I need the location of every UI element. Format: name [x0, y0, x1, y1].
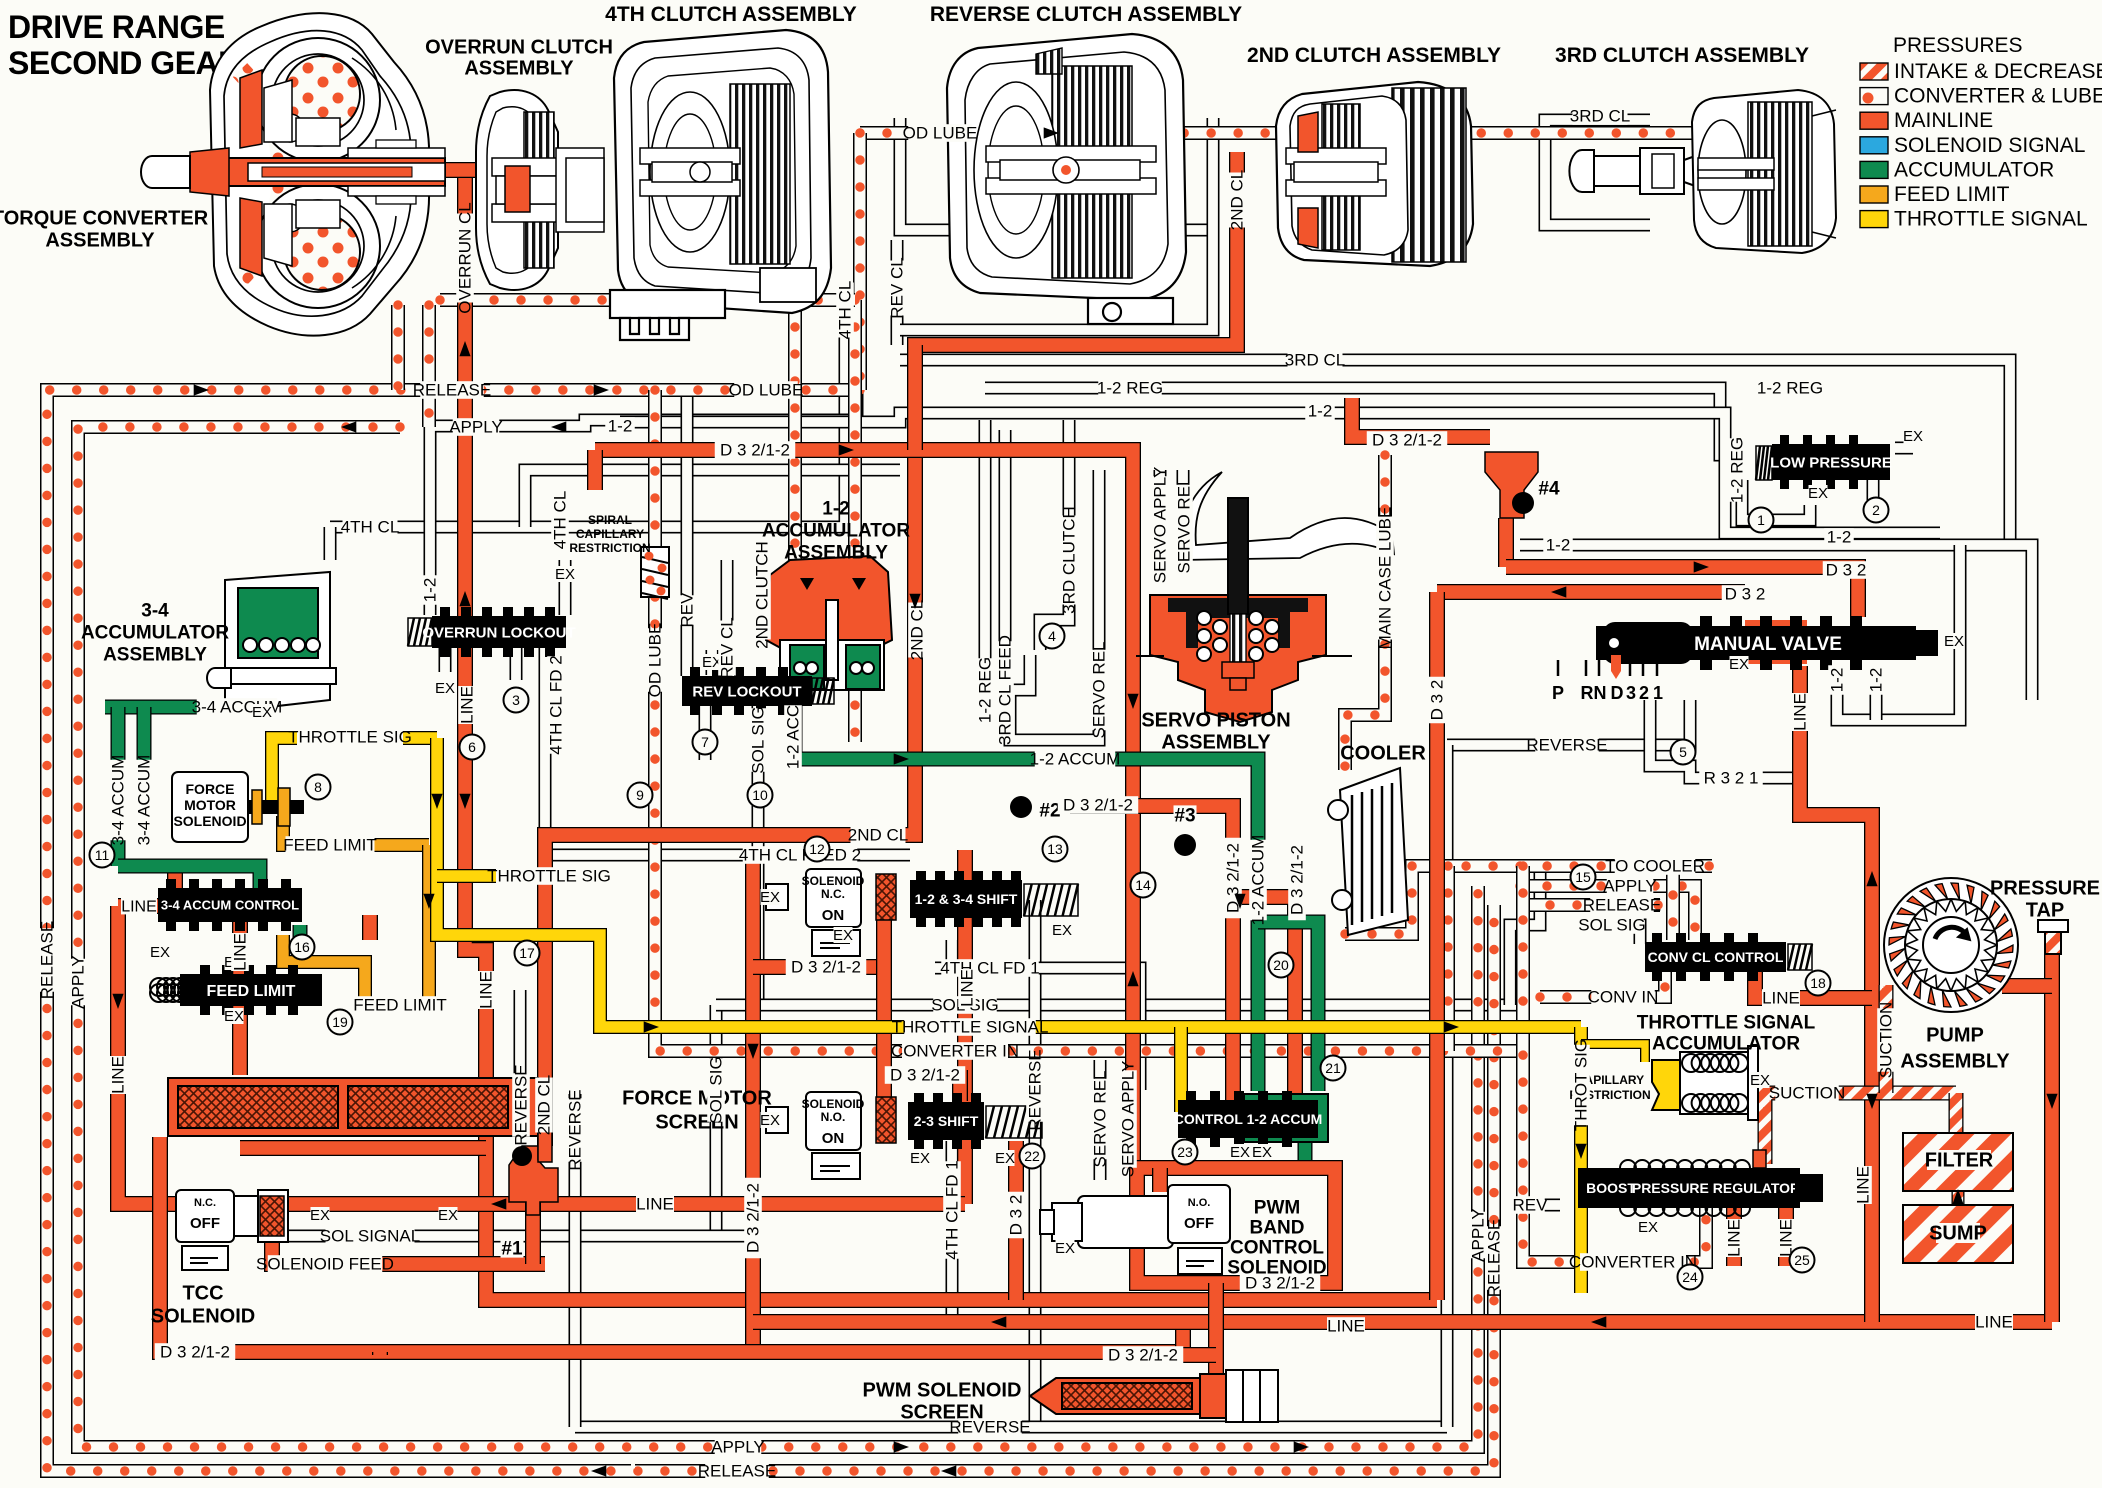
svg-text:RELEASE: RELEASE: [1485, 1219, 1504, 1297]
wire line top: [957, 930, 973, 935]
svg-text:21: 21: [1325, 1060, 1341, 1076]
wire release riser: [788, 300, 802, 742]
svg-text:#2: #2: [1039, 800, 1060, 821]
svg-text:PRESSURE REGULATOR: PRESSURE REGULATOR: [1632, 1180, 1800, 1196]
3-4 accumulator assembly: [207, 572, 336, 712]
svg-text:4TH CL: 4TH CL: [551, 491, 570, 550]
wire APPLY loop: [78, 427, 1478, 1447]
svg-text:OFF: OFF: [190, 1215, 220, 1232]
svg-text:4TH CL: 4TH CL: [836, 281, 855, 340]
wire EX rev lockout: [706, 650, 719, 675]
svg-text:4TH CL: 4TH CL: [341, 518, 400, 537]
svg-text:N.O.: N.O.: [821, 1110, 846, 1124]
wire rev cl top: [900, 118, 1213, 230]
svg-text:1-2 REG: 1-2 REG: [1097, 379, 1163, 398]
wire LINE stub b: [1778, 1208, 1794, 1266]
svg-text:EX: EX: [224, 1008, 244, 1025]
throttle signal accumulator: [1652, 1060, 1680, 1110]
1-2 accumulator assembly: [766, 556, 892, 690]
svg-text:SERVO APPLY: SERVO APPLY: [1151, 467, 1170, 584]
wire LINE bottom bus: [753, 1314, 2052, 1330]
svg-text:ASSEMBLY: ASSEMBLY: [1900, 1051, 2010, 1073]
wire FEED LIMIT loop: [365, 845, 429, 1005]
wire SOL SIG vert mid: [752, 705, 765, 1010]
wire OVERRUN CL / LINE vertical: [465, 168, 1437, 1300]
wire 4TH CL from 4th clutch: [330, 335, 845, 527]
svg-text:FEED LIMIT: FEED LIMIT: [353, 996, 447, 1015]
valve: 3-4 accum control: [158, 888, 302, 922]
line labels: [908, 124, 972, 142]
wire D 3 2/1-2 mid row: [1070, 806, 1233, 1100]
wire LINE left loop: [118, 906, 965, 1204]
svg-text:1-2: 1-2: [421, 578, 440, 603]
wire pwm valve stub: [1152, 1168, 1168, 1192]
wire 4TH CL FD 1 row: [952, 940, 1140, 1090]
svg-text:#4: #4: [1538, 478, 1560, 499]
svg-text:SOLENOID SIGNAL: SOLENOID SIGNAL: [1894, 134, 2085, 157]
wire throttle stub: [437, 869, 520, 883]
wire D32/1-2 row3: [1143, 1347, 1216, 1363]
wire REV CL vertical: [891, 240, 904, 345]
svg-text:LINE: LINE: [636, 1195, 674, 1214]
svg-text:1-2: 1-2: [608, 417, 633, 436]
svg-text:2-3 SHIFT: 2-3 SHIFT: [914, 1113, 979, 1129]
svg-text:EX: EX: [760, 1112, 780, 1129]
wire accum ctl stub: [167, 868, 183, 890]
svg-text:SOLENOID FEED: SOLENOID FEED: [256, 1255, 394, 1274]
svg-text:D 3 2/1-2: D 3 2/1-2: [1372, 431, 1442, 450]
valve: rev lockout: [682, 676, 812, 706]
svg-text:BAND: BAND: [1250, 1217, 1305, 1238]
svg-text:12: 12: [809, 841, 825, 857]
svg-text:14: 14: [1135, 877, 1151, 893]
svg-text:ACCUMULATOR: ACCUMULATOR: [1652, 1033, 1800, 1054]
svg-text:SERVO APPLY: SERVO APPLY: [1119, 1061, 1138, 1178]
wire REVERSE channel short: [514, 990, 527, 1131]
svg-text:EX: EX: [1052, 922, 1072, 939]
wire PWM loop: [1133, 1168, 1335, 1283]
wire CONVERTER IN low: [1523, 866, 1706, 1262]
wire 4th cl branch: [525, 470, 900, 527]
svg-text:THROTTLE SIGNAL: THROTTLE SIGNAL: [1894, 208, 2088, 231]
3rd clutch assembly: [1569, 90, 1836, 253]
manual valve selector PRND321: [1557, 660, 1560, 676]
svg-text:LINE: LINE: [109, 1056, 128, 1094]
svg-text:OD LUBE: OD LUBE: [903, 124, 978, 143]
svg-text:25: 25: [1794, 1252, 1810, 1268]
svg-text:FEED LIMIT: FEED LIMIT: [1894, 183, 2010, 206]
wire apply riser tc: [422, 305, 436, 427]
svg-text:2ND CL: 2ND CL: [848, 826, 908, 845]
wire REVERSE bottom row: [575, 1421, 1447, 1434]
wire 3-4 accum v2: [137, 707, 152, 838]
wire to conv valve: [1666, 868, 1680, 940]
wire ckt1 outlet: [525, 1202, 541, 1264]
svg-text:OD LUBE: OD LUBE: [729, 381, 804, 400]
svg-text:SERVO REL: SERVO REL: [1091, 1070, 1110, 1167]
svg-text:4TH CLUTCH ASSEMBLY: 4TH CLUTCH ASSEMBLY: [605, 3, 857, 26]
tcc solenoid: [176, 1190, 288, 1270]
wire SOL SIGNAL tcc: [283, 1230, 758, 1243]
svg-text:MAIN CASE LUBE: MAIN CASE LUBE: [1376, 507, 1395, 650]
wire TO COOLER: [1345, 866, 1712, 934]
svg-text:THROTTLE SIG: THROTTLE SIG: [487, 867, 611, 886]
wire pressure tap line: [2044, 940, 2060, 1322]
svg-text:1-2 & 3-4 SHIFT: 1-2 & 3-4 SHIFT: [915, 891, 1018, 907]
wire SUCTION vert: [1879, 985, 1894, 1093]
svg-text:ON: ON: [822, 1130, 845, 1147]
svg-text:3RD CLUTCH ASSEMBLY: 3RD CLUTCH ASSEMBLY: [1555, 44, 1809, 67]
wire MAIN CASE LUBE: [1345, 455, 1385, 770]
pwm band control solenoid: [1040, 1185, 1230, 1274]
svg-text:LINE: LINE: [477, 971, 496, 1009]
svg-text:RESTRICTION: RESTRICTION: [569, 541, 650, 555]
wire 1-2 REG row: [985, 388, 1742, 455]
svg-text:1-2 ACC: 1-2 ACC: [784, 705, 803, 769]
svg-text:P: P: [1552, 683, 1564, 703]
wire pwm screen feed: [1208, 1322, 1224, 1374]
svg-text:TAP: TAP: [2026, 900, 2065, 922]
filter: [1903, 1133, 2013, 1191]
svg-text:EX: EX: [910, 1150, 930, 1167]
svg-text:THROTTLE SIGNAL: THROTTLE SIGNAL: [892, 1018, 1049, 1037]
wire FEED LIMIT c: [320, 962, 365, 1005]
node #3: [1174, 834, 1196, 856]
svg-text:MAINLINE: MAINLINE: [1894, 109, 1993, 132]
wire 1-2 loop a: [1837, 545, 1960, 720]
svg-text:PRESSURES: PRESSURES: [1893, 34, 2023, 57]
svg-text:D 3 2/1-2: D 3 2/1-2: [1108, 1346, 1178, 1365]
svg-text:EX: EX: [1252, 1144, 1272, 1161]
svg-text:SOL SIG: SOL SIG: [707, 1056, 726, 1123]
wire 3-4 ACCUM row: [105, 700, 270, 715]
wire accum ctl ex: [293, 925, 308, 955]
wire od lube vert: [853, 133, 867, 390]
pressure tap: [2038, 920, 2068, 954]
wire 1-2 ACC down: [788, 700, 803, 759]
wire ckt4 out: [1498, 518, 1514, 567]
svg-text:SERVO REL: SERVO REL: [1090, 641, 1109, 738]
svg-text:APPLY: APPLY: [711, 1438, 765, 1457]
svg-text:2: 2: [1639, 683, 1649, 703]
svg-text:SPIRAL: SPIRAL: [588, 513, 632, 527]
svg-text:4TH CL FD 1: 4TH CL FD 1: [940, 959, 1040, 978]
svg-text:2ND CL: 2ND CL: [535, 1075, 554, 1135]
svg-text:EX: EX: [833, 927, 853, 944]
svg-text:3-4 ACCUM: 3-4 ACCUM: [109, 755, 128, 846]
svg-text:SOL SIGNAL: SOL SIGNAL: [320, 1227, 420, 1246]
svg-text:THROTTLE SIG: THROTTLE SIG: [288, 728, 412, 747]
wire SERVO REL vert: [1093, 470, 1106, 700]
svg-text:FORCE: FORCE: [186, 781, 235, 797]
valve: boost pressure regulator: [1578, 1168, 1800, 1208]
wire 1-2 accum branch: [1258, 922, 1318, 1091]
valve: conv cl control: [1645, 942, 1786, 972]
wire 1-2 right: [1520, 545, 2032, 700]
svg-text:CONVERTER & LUBE: CONVERTER & LUBE: [1894, 85, 2102, 108]
svg-text:SOLENOID: SOLENOID: [802, 1097, 865, 1111]
svg-text:1-2: 1-2: [822, 498, 849, 519]
svg-text:REVERSE: REVERSE: [1026, 1049, 1045, 1130]
svg-text:REVERSE CLUTCH ASSEMBLY: REVERSE CLUTCH ASSEMBLY: [930, 3, 1242, 26]
svg-text:D 3 2/1-2: D 3 2/1-2: [744, 1183, 763, 1253]
svg-text:FILTER: FILTER: [1925, 1150, 1994, 1172]
svg-text:4TH CL FD 2: 4TH CL FD 2: [547, 655, 566, 755]
wire 3RD CL FEED vert: [999, 430, 1012, 700]
svg-text:13: 13: [1047, 841, 1063, 857]
svg-text:R: R: [1581, 683, 1594, 703]
svg-text:OVERRUN LOCKOUT: OVERRUN LOCKOUT: [422, 624, 575, 641]
svg-text:EX: EX: [435, 680, 455, 697]
svg-text:FEED LIMIT: FEED LIMIT: [207, 983, 296, 1000]
svg-text:RELEASE: RELEASE: [698, 1462, 776, 1481]
valve: low pressure: [1756, 446, 1772, 480]
svg-text:PUMP: PUMP: [1926, 1025, 1984, 1047]
svg-text:17: 17: [519, 945, 535, 961]
valve: 1-2 & 3-4 shift + solenoid: [806, 869, 861, 927]
svg-text:N.C.: N.C.: [194, 1197, 216, 1209]
svg-text:19: 19: [332, 1014, 348, 1030]
sump: [1903, 1205, 2013, 1263]
svg-text:LINE: LINE: [121, 898, 157, 915]
wire D32/1-2 xlink: [753, 959, 884, 975]
wire D 3 2 upper: [1506, 567, 1858, 617]
svg-text:D 3 2/1-2: D 3 2/1-2: [1063, 796, 1133, 815]
svg-text:4TH CL FEED 2: 4TH CL FEED 2: [739, 846, 861, 865]
2nd clutch assembly: [1276, 82, 1473, 266]
svg-text:2ND CLUTCH: 2ND CLUTCH: [753, 541, 772, 649]
svg-text:EX: EX: [1750, 1072, 1770, 1089]
svg-text:2ND CLUTCH ASSEMBLY: 2ND CLUTCH ASSEMBLY: [1247, 44, 1501, 67]
svg-text:3: 3: [1626, 683, 1636, 703]
svg-text:EX: EX: [438, 1207, 458, 1224]
svg-text:EX: EX: [760, 889, 780, 906]
svg-text:N.C.: N.C.: [821, 887, 845, 901]
wire 2nd a: [907, 345, 923, 450]
svg-text:D 3 2/1-2: D 3 2/1-2: [890, 1066, 960, 1085]
svg-text:LINE: LINE: [958, 969, 977, 1007]
svg-text:6: 6: [468, 739, 476, 755]
wire D 3 2 shift vert: [1008, 1141, 1024, 1300]
wire EX overrun lockout bottom: [439, 646, 452, 672]
svg-text:EX: EX: [1903, 428, 1923, 445]
svg-text:24: 24: [1682, 1269, 1698, 1285]
svg-text:THROTTLE SIGNAL: THROTTLE SIGNAL: [1637, 1012, 1816, 1033]
wire LINE center vert: [957, 850, 973, 1204]
wire FEED LIMIT a: [283, 816, 429, 845]
svg-text:PWM SOLENOID: PWM SOLENOID: [863, 1380, 1022, 1402]
wire THROTTLE SIGNAL main: [437, 738, 1581, 1027]
svg-text:REV LOCKOUT: REV LOCKOUT: [692, 683, 801, 700]
wire OD LUBE top row: [860, 133, 1735, 215]
wire ckt1 loop: [1742, 480, 1810, 520]
svg-text:15: 15: [1575, 869, 1591, 885]
valve: manual valve: [1745, 620, 1807, 664]
wire CONVERTER IN row: [655, 597, 1523, 1051]
wire D 3 2 vert: [1429, 592, 1445, 1300]
wire 1-2 long row: [620, 413, 1940, 533]
wire RELEASE mid row: [1523, 898, 1660, 912]
svg-text:EX: EX: [995, 1150, 1015, 1167]
svg-text:REVERSE: REVERSE: [512, 1064, 531, 1145]
svg-text:MOTOR: MOTOR: [184, 797, 236, 813]
svg-text:EX: EX: [1055, 1240, 1075, 1257]
wire D 3 2/1-2 vert: [745, 855, 761, 1352]
wire ctl accum ex: [1298, 1137, 1313, 1160]
svg-text:SOLENOID: SOLENOID: [173, 813, 246, 829]
wire REVERSE channel long: [569, 1094, 582, 1427]
wire SOL SIG to TCC: [710, 1005, 723, 1240]
wire 1-2 REG vert: [979, 420, 992, 700]
wire rev lockout feed: [681, 390, 694, 676]
svg-text:1-2: 1-2: [1827, 528, 1852, 547]
wire accum ctl stub2: [362, 915, 378, 940]
svg-text:PWM: PWM: [1254, 1197, 1300, 1218]
svg-text:22: 22: [1024, 1148, 1040, 1164]
svg-text:APPLY: APPLY: [449, 418, 503, 437]
wire LINE row mid: [240, 1140, 486, 1156]
wire d32 stub: [587, 450, 603, 490]
svg-text:ASSEMBLY: ASSEMBLY: [464, 58, 574, 80]
svg-text:5: 5: [1679, 744, 1687, 760]
overrun clutch assembly: [476, 90, 604, 290]
svg-text:D 3 2/1-2: D 3 2/1-2: [1245, 1274, 1315, 1293]
svg-text:ACCUMULATOR: ACCUMULATOR: [81, 622, 229, 643]
wire SERVO REL tab: [1177, 470, 1190, 560]
svg-text:LINE: LINE: [1725, 1219, 1744, 1257]
svg-text:18: 18: [1810, 975, 1826, 991]
wire 3-4 accum v1: [111, 707, 126, 866]
svg-text:SUCTION: SUCTION: [1877, 1002, 1896, 1079]
svg-text:3RD CL: 3RD CL: [1285, 351, 1345, 370]
svg-text:CONV IN: CONV IN: [1588, 988, 1659, 1007]
wire converter shaft link: [440, 293, 855, 307]
wire sol sig right loop: [1510, 868, 1540, 1005]
wire 3RD CLUTCH vert: [1040, 420, 1069, 650]
svg-text:SOLENOID: SOLENOID: [802, 874, 865, 888]
svg-text:SECOND GEAR: SECOND GEAR: [8, 45, 241, 81]
svg-text:REV CL: REV CL: [888, 257, 907, 318]
svg-text:2ND CL: 2ND CL: [1228, 170, 1247, 230]
svg-text:EX: EX: [310, 1207, 330, 1224]
svg-text:MANUAL VALVE: MANUAL VALVE: [1694, 634, 1842, 655]
wire REVERSE vert: [1029, 900, 1042, 1427]
svg-text:REV CL: REV CL: [718, 617, 737, 678]
svg-text:EX: EX: [1808, 485, 1828, 502]
svg-text:APPLY: APPLY: [1603, 877, 1657, 896]
flow arrows: [194, 384, 209, 395]
wire ckt2 loop: [1010, 655, 1099, 740]
svg-text:3-4 ACCUM CONTROL: 3-4 ACCUM CONTROL: [161, 898, 299, 913]
wire 3rd cl link: [900, 118, 1213, 330]
wire to 3-4 accum control: [118, 866, 260, 890]
svg-text:1-2 REG: 1-2 REG: [1757, 379, 1823, 398]
svg-text:4TH CL FD 1: 4TH CL FD 1: [943, 1160, 962, 1260]
svg-text:1-2: 1-2: [1546, 536, 1571, 555]
svg-text:TO COOLER: TO COOLER: [1605, 857, 1705, 876]
svg-text:TCC: TCC: [182, 1283, 223, 1305]
svg-text:REV: REV: [678, 592, 697, 628]
svg-text:D 3 2: D 3 2: [1826, 561, 1867, 580]
svg-text:16: 16: [294, 939, 310, 955]
svg-text:ASSEMBLY: ASSEMBLY: [784, 542, 888, 563]
svg-text:2ND CL: 2ND CL: [908, 600, 927, 660]
svg-text:N: N: [1594, 683, 1607, 703]
wire THROTTLE SIG fm: [272, 738, 437, 800]
svg-text:SERVO REL: SERVO REL: [1175, 476, 1194, 573]
svg-text:3RD CL FEED: 3RD CL FEED: [996, 635, 1015, 745]
wire shift link vert: [876, 918, 892, 1100]
wire 2-3 stub: [952, 1070, 968, 1101]
node #2: [1010, 796, 1032, 818]
wire LINE manual to bottom: [1800, 666, 1872, 1322]
svg-text:LINE: LINE: [1762, 989, 1800, 1008]
wire link up: [1175, 1322, 1191, 1352]
svg-text:EX: EX: [1638, 1219, 1658, 1236]
svg-text:ASSEMBLY: ASSEMBLY: [1161, 732, 1271, 754]
wire SOL SIG stub: [1612, 925, 1640, 944]
svg-text:LOW PRESSURE: LOW PRESSURE: [1770, 454, 1892, 471]
svg-text:EX: EX: [150, 944, 170, 961]
4th clutch assembly: [610, 30, 831, 340]
valve: control 1-2 accum: [1244, 1094, 1328, 1142]
torque converter assembly: [141, 13, 445, 335]
svg-text:CONTROL 1-2 ACCUM: CONTROL 1-2 ACCUM: [1174, 1111, 1323, 1127]
svg-text:7: 7: [701, 734, 709, 750]
svg-text:RELEASE: RELEASE: [413, 381, 491, 400]
wire 4TH CL FD 2: [545, 646, 910, 855]
svg-text:CAPILLARY: CAPILLARY: [576, 527, 644, 541]
svg-text:D: D: [1611, 683, 1624, 703]
svg-text:3RD CL: 3RD CL: [1570, 107, 1630, 126]
svg-text:ACCUMULATOR: ACCUMULATOR: [762, 520, 910, 541]
svg-text:1-2 ACCUM: 1-2 ACCUM: [1030, 750, 1121, 769]
wire ckt2b: [1867, 480, 1880, 520]
wire 1-2 ACCUM long: [795, 759, 1258, 1091]
svg-text:FEED LIMIT: FEED LIMIT: [283, 836, 377, 855]
svg-text:1-2 ACCUM: 1-2 ACCUM: [1249, 835, 1268, 926]
svg-text:BOOST: BOOST: [1586, 1180, 1636, 1196]
svg-text:OVERRUN CL: OVERRUN CL: [456, 202, 475, 313]
svg-text:2: 2: [1872, 502, 1880, 518]
svg-text:EX: EX: [252, 704, 272, 721]
svg-text:OFF: OFF: [1184, 1215, 1214, 1232]
svg-text:3-4 ACCUM: 3-4 ACCUM: [135, 755, 154, 846]
circled numbers: [504, 688, 529, 713]
svg-text:ACCUMULATOR: ACCUMULATOR: [1894, 158, 2054, 181]
svg-text:PRESSURE: PRESSURE: [1990, 878, 2100, 900]
svg-text:1: 1: [1653, 683, 1663, 703]
svg-text:SOL SIG: SOL SIG: [749, 706, 768, 773]
svg-text:D 3 2: D 3 2: [1725, 585, 1766, 604]
svg-text:3-4: 3-4: [141, 600, 169, 621]
svg-text:CONTROL: CONTROL: [1230, 1237, 1324, 1258]
svg-text:CONVERTER IN: CONVERTER IN: [1569, 1253, 1697, 1272]
wire ctl accum yellow: [1174, 1027, 1188, 1112]
wire overrun feed: [443, 162, 520, 178]
svg-text:SUCTION: SUCTION: [1769, 1084, 1846, 1103]
svg-text:REVERSE: REVERSE: [1526, 736, 1607, 755]
svg-text:#1: #1: [501, 1238, 523, 1259]
wire D32/1-2 to servo apply: [595, 450, 1133, 1168]
svg-text:ASSEMBLY: ASSEMBLY: [103, 644, 207, 665]
wire ckt7: [699, 705, 712, 760]
wire od lube down: [648, 390, 662, 547]
wire APPLY mid row: [1520, 886, 1695, 940]
svg-text:4: 4: [1048, 628, 1056, 644]
wire release riser tc: [391, 305, 405, 390]
svg-text:SERVO PISTON: SERVO PISTON: [1141, 710, 1290, 732]
